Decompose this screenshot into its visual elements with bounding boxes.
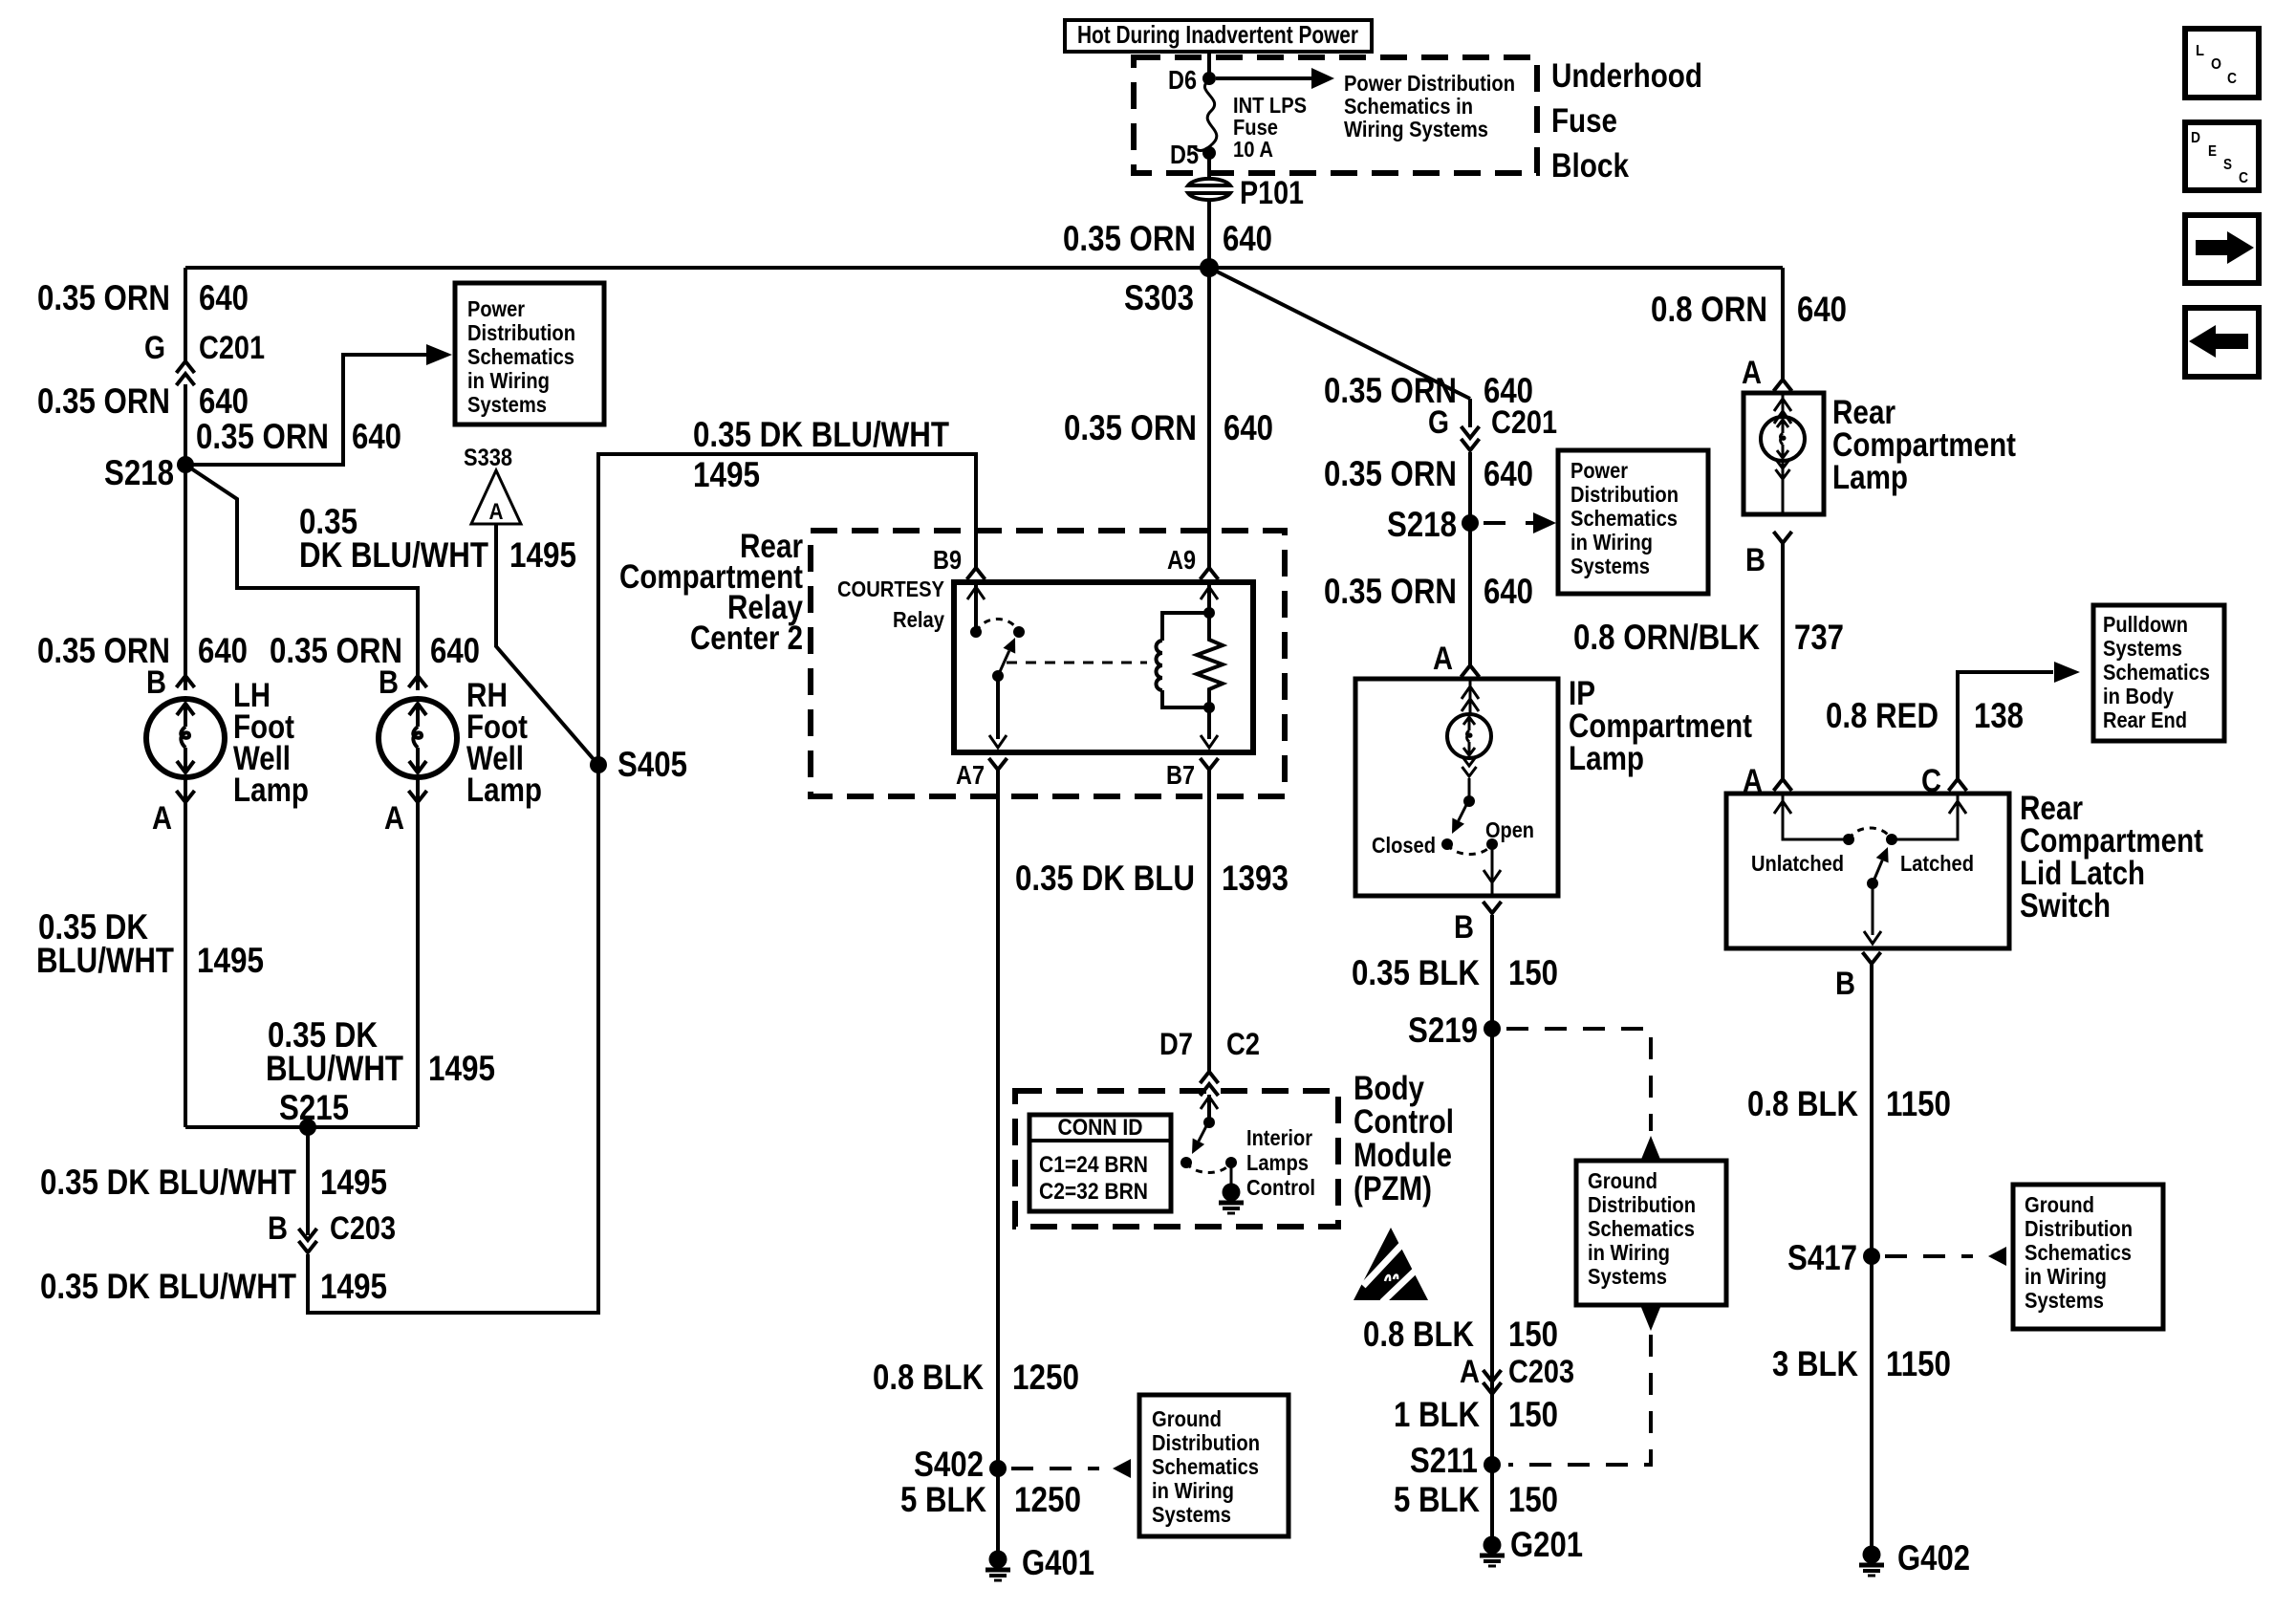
svg-text:Pulldown: Pulldown bbox=[2103, 612, 2188, 637]
svg-text:Unlatched: Unlatched bbox=[1751, 851, 1844, 876]
svg-text:Schematics: Schematics bbox=[2103, 660, 2210, 685]
svg-text:1495: 1495 bbox=[509, 535, 576, 575]
label box Hot During Inadvertent Power bbox=[1065, 20, 1372, 52]
connector C201 pin G bbox=[177, 361, 195, 373]
wire IP lamp B to G201 bbox=[1490, 915, 1494, 1536]
svg-text:S219: S219 bbox=[1408, 1011, 1478, 1050]
rear compartment relay center 2 dashed box bbox=[811, 531, 1285, 796]
svg-text:Distribution: Distribution bbox=[2025, 1216, 2133, 1241]
IP lamp internal wire bbox=[1469, 679, 1472, 714]
svg-text:138: 138 bbox=[1974, 696, 2024, 735]
svg-text:A7: A7 bbox=[956, 760, 985, 790]
svg-text:5 BLK: 5 BLK bbox=[900, 1480, 986, 1519]
connector C203 pin A (right) bbox=[1484, 1382, 1502, 1394]
splice S303 bbox=[1200, 258, 1219, 277]
svg-text:G: G bbox=[1428, 404, 1449, 441]
ground G402 bbox=[1863, 1546, 1881, 1564]
relay switch arm bbox=[998, 651, 1009, 676]
svg-text:C201: C201 bbox=[1491, 404, 1557, 441]
pin B RH foot well lamp bbox=[409, 676, 427, 687]
svg-text:0.35 ORN: 0.35 ORN bbox=[37, 381, 170, 421]
svg-text:C: C bbox=[2227, 71, 2237, 87]
svg-text:Center 2: Center 2 bbox=[690, 620, 803, 657]
svg-text:G402: G402 bbox=[1897, 1538, 1970, 1577]
relay internal wire A9 to coil junction bbox=[1207, 582, 1211, 613]
wire C201 to S218 right bbox=[1468, 452, 1472, 523]
wire loop bottom joining lamps bbox=[185, 1125, 418, 1129]
wire C203 around to relay B9 bbox=[308, 454, 976, 1313]
svg-text:640: 640 bbox=[1223, 219, 1272, 258]
wire hot feed into fuse block bbox=[1207, 52, 1211, 78]
svg-text:640: 640 bbox=[352, 417, 401, 456]
svg-text:D: D bbox=[2191, 130, 2200, 146]
svg-text:A: A bbox=[384, 800, 404, 837]
svg-text:1495: 1495 bbox=[197, 941, 264, 980]
svg-text:0.35 ORN: 0.35 ORN bbox=[1324, 572, 1457, 611]
svg-text:Switch: Switch bbox=[2020, 887, 2111, 925]
relay coil bbox=[1162, 613, 1209, 641]
svg-text:0.35 DK BLU/WHT: 0.35 DK BLU/WHT bbox=[40, 1163, 296, 1202]
rear compartment lamp bulb bbox=[1761, 417, 1805, 461]
svg-text:Fuse: Fuse bbox=[1551, 102, 1617, 140]
svg-text:in Wiring: in Wiring bbox=[1152, 1478, 1234, 1503]
nav box DESC bbox=[2185, 122, 2259, 190]
svg-text:S402: S402 bbox=[914, 1445, 984, 1484]
svg-text:A9: A9 bbox=[1167, 545, 1196, 575]
svg-text:CONN ID: CONN ID bbox=[1058, 1115, 1143, 1141]
relay internal wire B9 to fixed contact bbox=[974, 582, 978, 632]
wire rear lamp B to latch switch A bbox=[1781, 542, 1785, 779]
BCM switch linkage arc bbox=[1186, 1163, 1231, 1173]
svg-text:150: 150 bbox=[1508, 953, 1558, 992]
relay resistor bbox=[1197, 613, 1223, 707]
svg-text:1393: 1393 bbox=[1222, 859, 1289, 898]
svg-text:Schematics: Schematics bbox=[1570, 506, 1678, 531]
IP switch contact Open bbox=[1486, 838, 1498, 850]
svg-text:S417: S417 bbox=[1787, 1238, 1857, 1277]
svg-text:150: 150 bbox=[1508, 1395, 1558, 1434]
svg-text:1150: 1150 bbox=[1886, 1344, 1951, 1383]
svg-text:0.35 ORN: 0.35 ORN bbox=[196, 417, 329, 456]
dashed reference S218 to power distribution box bbox=[1484, 521, 1522, 525]
rear compartment lamp box bbox=[1744, 393, 1824, 514]
relay coil bottom junction bbox=[1203, 702, 1215, 713]
BCM interior lamps control switch arm bbox=[1199, 1124, 1207, 1142]
node D5 bbox=[1202, 146, 1216, 160]
wire C201 to S218 bbox=[184, 384, 187, 465]
svg-text:Interior: Interior bbox=[1246, 1125, 1312, 1150]
rear lamp internal connector bbox=[1776, 469, 1790, 479]
svg-text:C203: C203 bbox=[1508, 1354, 1574, 1390]
IP switch contact Closed bbox=[1441, 838, 1453, 850]
pin A RH foot well lamp bbox=[409, 791, 427, 802]
svg-text:Closed: Closed bbox=[1372, 833, 1436, 858]
wire to connector C201 bbox=[1468, 399, 1472, 427]
svg-text:G401: G401 bbox=[1022, 1543, 1094, 1582]
wire S338 to S405 bbox=[496, 524, 598, 765]
svg-text:Wiring Systems: Wiring Systems bbox=[1344, 117, 1488, 141]
connector C2 pin D7 bbox=[1201, 1072, 1219, 1083]
svg-text:Lamp: Lamp bbox=[1832, 459, 1908, 496]
svg-text:Systems: Systems bbox=[1570, 554, 1650, 578]
BCM input arrow up bbox=[1201, 1097, 1218, 1109]
rear lamp internal wire top bbox=[1782, 393, 1785, 418]
svg-text:Lamp: Lamp bbox=[466, 772, 542, 809]
CONN ID table bbox=[1029, 1115, 1171, 1211]
svg-text:A: A bbox=[152, 800, 172, 837]
svg-text:0.35 DK BLU/WHT: 0.35 DK BLU/WHT bbox=[40, 1267, 296, 1306]
svg-text:E: E bbox=[2208, 143, 2217, 160]
svg-text:B: B bbox=[1454, 909, 1474, 946]
svg-text:in Wiring: in Wiring bbox=[2025, 1264, 2107, 1289]
ground G201 bbox=[1484, 1536, 1502, 1555]
ESD sensitive device symbol bbox=[1354, 1228, 1428, 1300]
svg-text:(PZM): (PZM) bbox=[1354, 1170, 1432, 1207]
svg-text:S338: S338 bbox=[464, 445, 512, 471]
svg-text:Systems: Systems bbox=[2025, 1288, 2104, 1313]
pin B7 chevron bbox=[1201, 758, 1219, 770]
dashed reference S402 to ground distribution box bbox=[1011, 1467, 1099, 1470]
pin B IP compartment lamp bbox=[1484, 902, 1502, 913]
wire S215 down to C203 bbox=[306, 1127, 310, 1235]
svg-text:in Wiring: in Wiring bbox=[1570, 530, 1653, 555]
svg-text:1495: 1495 bbox=[320, 1267, 387, 1306]
svg-text:737: 737 bbox=[1794, 618, 1844, 657]
svg-text:1 BLK: 1 BLK bbox=[1394, 1395, 1480, 1434]
IP lamp wire open contact down bbox=[1491, 844, 1494, 874]
pin A latch switch bbox=[1774, 779, 1792, 791]
diagonal wire S303 to C201 bbox=[1209, 268, 1470, 399]
svg-text:C201: C201 bbox=[199, 330, 265, 366]
svg-text:Ground: Ground bbox=[1588, 1168, 1657, 1193]
svg-text:5 BLK: 5 BLK bbox=[1394, 1480, 1480, 1519]
svg-text:S218: S218 bbox=[104, 453, 174, 492]
BCM contact left bbox=[1180, 1157, 1192, 1168]
svg-text:B: B bbox=[379, 664, 399, 701]
svg-text:640: 640 bbox=[1484, 572, 1533, 611]
svg-text:C1=24 BRN: C1=24 BRN bbox=[1039, 1152, 1148, 1178]
wire D5 to P101 bbox=[1207, 153, 1211, 178]
svg-text:A: A bbox=[1742, 355, 1762, 391]
svg-text:Underhood: Underhood bbox=[1551, 57, 1702, 95]
svg-text:3 BLK: 3 BLK bbox=[1772, 1344, 1858, 1383]
wire bus down to C201 G bbox=[184, 268, 187, 361]
latch switch arm bbox=[1873, 860, 1882, 883]
svg-text:Latched: Latched bbox=[1900, 851, 1974, 876]
reference box Ground Distribution Schematics (right) bbox=[2013, 1185, 2163, 1329]
rear lamp internal wire bottom bbox=[1782, 462, 1785, 514]
splice S218 left bbox=[177, 456, 194, 473]
splice S402 bbox=[989, 1460, 1007, 1477]
svg-text:B: B bbox=[146, 664, 166, 701]
wire S218 to LH foot well lamp bbox=[184, 465, 187, 690]
svg-text:C: C bbox=[2239, 170, 2248, 186]
relay moving contact bbox=[1013, 626, 1025, 638]
splice S219 bbox=[1484, 1020, 1501, 1037]
IP lamp internal connector bbox=[1462, 767, 1477, 776]
svg-text:P101: P101 bbox=[1240, 175, 1304, 211]
svg-text:Hot During Inadvertent Power: Hot During Inadvertent Power bbox=[1077, 20, 1358, 49]
ground G401 bbox=[989, 1551, 1007, 1569]
BCM switch node bbox=[1203, 1117, 1215, 1128]
svg-text:640: 640 bbox=[1484, 454, 1533, 493]
IP lamp switch pivot bbox=[1463, 795, 1475, 807]
svg-text:Control: Control bbox=[1354, 1103, 1454, 1141]
pin B LH foot well lamp bbox=[177, 676, 195, 687]
relay internal wire arm to A7 bbox=[996, 676, 1000, 739]
pin A9 chevron bbox=[1201, 568, 1219, 579]
reference box Pulldown Systems Schematics in Body Rear End bbox=[2093, 605, 2224, 741]
splice S218 right bbox=[1462, 514, 1479, 532]
svg-text:0.35 ORN: 0.35 ORN bbox=[1324, 454, 1457, 493]
svg-text:BLU/WHT: BLU/WHT bbox=[266, 1049, 403, 1088]
svg-text:0.8 BLK: 0.8 BLK bbox=[1363, 1315, 1474, 1354]
latch contact Unlatched bbox=[1843, 834, 1854, 845]
svg-text:640: 640 bbox=[1797, 290, 1847, 329]
svg-text:640: 640 bbox=[199, 278, 249, 317]
latch arm pivot bbox=[1867, 878, 1878, 889]
relay switch linkage arc bbox=[976, 620, 1019, 633]
svg-text:0.35 ORN: 0.35 ORN bbox=[1063, 219, 1196, 258]
svg-text:0.35 DK BLU/WHT: 0.35 DK BLU/WHT bbox=[693, 415, 949, 454]
svg-text:G: G bbox=[144, 330, 165, 366]
svg-text:Power Distribution: Power Distribution bbox=[1344, 71, 1515, 96]
svg-text:Ground: Ground bbox=[1152, 1406, 1222, 1431]
svg-text:O: O bbox=[2211, 56, 2221, 73]
splice S215 bbox=[299, 1119, 316, 1136]
splice S211 bbox=[1484, 1456, 1501, 1473]
svg-text:Distribution: Distribution bbox=[1588, 1192, 1696, 1217]
svg-text:Schematics: Schematics bbox=[2025, 1240, 2132, 1265]
rear compartment lid latch switch box bbox=[1726, 794, 2009, 948]
svg-text:Distribution: Distribution bbox=[467, 320, 575, 345]
RH foot well lamp bbox=[379, 699, 457, 777]
courtesy relay box bbox=[954, 582, 1253, 752]
relay linkage dashed line bbox=[1007, 662, 1147, 664]
svg-text:S215: S215 bbox=[279, 1088, 349, 1127]
reference box Power Distribution Schematics (middle) bbox=[1558, 450, 1708, 594]
svg-text:0.8 ORN/BLK: 0.8 ORN/BLK bbox=[1573, 618, 1760, 657]
svg-text:640: 640 bbox=[199, 381, 249, 421]
wire A7 to G401 bbox=[996, 768, 1000, 1551]
relay arm pivot bbox=[992, 670, 1004, 682]
svg-text:D5: D5 bbox=[1170, 140, 1199, 169]
connector S338 triangle bbox=[471, 470, 521, 524]
BCM wire to internal ground bbox=[1230, 1163, 1233, 1186]
IP compartment lamp box bbox=[1355, 679, 1558, 896]
reference box Power Distribution Schematics in Wiring Systems bbox=[455, 283, 604, 424]
svg-text:D6: D6 bbox=[1168, 65, 1197, 95]
wire B7 to BCM D7 bbox=[1207, 768, 1211, 1072]
relay fixed contact bbox=[970, 626, 982, 638]
svg-text:S218: S218 bbox=[1387, 505, 1457, 544]
svg-text:C203: C203 bbox=[330, 1210, 396, 1247]
svg-text:C: C bbox=[1921, 763, 1941, 799]
pin B latch switch bbox=[1863, 952, 1881, 964]
arrow to power distribution schematics bbox=[1216, 76, 1311, 80]
svg-text:in Wiring: in Wiring bbox=[467, 368, 550, 393]
svg-text:Body: Body bbox=[1354, 1070, 1424, 1107]
svg-text:Lamp: Lamp bbox=[1569, 740, 1644, 777]
svg-text:A: A bbox=[1433, 641, 1453, 677]
nav box next arrow bbox=[2185, 215, 2259, 283]
svg-text:DK BLU/WHT: DK BLU/WHT bbox=[299, 535, 488, 575]
BCM internal ground bbox=[1223, 1184, 1241, 1202]
svg-text:Relay: Relay bbox=[893, 607, 944, 632]
wire latch B to G402 bbox=[1870, 965, 1874, 1546]
wire P101 to S303 bbox=[1207, 200, 1211, 268]
latch switch linkage arc bbox=[1849, 828, 1892, 839]
svg-text:0.35 ORN: 0.35 ORN bbox=[1064, 408, 1197, 447]
wire bus to rear compartment lamp A bbox=[1781, 268, 1785, 380]
node D6 bbox=[1202, 72, 1216, 85]
pin B9 chevron bbox=[967, 568, 986, 579]
svg-text:Block: Block bbox=[1551, 147, 1629, 185]
svg-text:150: 150 bbox=[1508, 1480, 1558, 1519]
svg-text:10 A: 10 A bbox=[1233, 137, 1273, 162]
pin A IP compartment lamp bbox=[1462, 665, 1480, 677]
wire into BCM bbox=[1207, 1095, 1211, 1122]
svg-text:Systems: Systems bbox=[467, 392, 547, 417]
svg-text:Systems: Systems bbox=[1588, 1264, 1667, 1289]
svg-text:Distribution: Distribution bbox=[1570, 482, 1679, 507]
bus wire 640 ORN bbox=[185, 266, 1783, 270]
svg-text:150: 150 bbox=[1508, 1315, 1558, 1354]
svg-text:0.8 BLK: 0.8 BLK bbox=[1747, 1084, 1858, 1123]
svg-text:0.35 DK BLU: 0.35 DK BLU bbox=[1015, 859, 1195, 898]
svg-text:0.35 ORN: 0.35 ORN bbox=[37, 278, 170, 317]
BCM contact right bbox=[1225, 1157, 1237, 1168]
connector P101 bbox=[1188, 179, 1230, 185]
svg-text:640: 640 bbox=[1224, 408, 1273, 447]
svg-text:Control: Control bbox=[1246, 1175, 1315, 1200]
svg-text:Lamps: Lamps bbox=[1246, 1150, 1309, 1175]
svg-text:Systems: Systems bbox=[1152, 1502, 1231, 1527]
svg-text:in Wiring: in Wiring bbox=[1588, 1240, 1670, 1265]
wire LH lamp to S215 loop bbox=[184, 777, 187, 1127]
splice S417 bbox=[1863, 1248, 1880, 1265]
svg-text:Systems: Systems bbox=[2103, 636, 2182, 661]
svg-text:D7: D7 bbox=[1159, 1027, 1193, 1061]
svg-text:Distribution: Distribution bbox=[1152, 1430, 1260, 1455]
relay coil top junction bbox=[1203, 607, 1215, 619]
svg-text:B: B bbox=[1835, 966, 1855, 1002]
svg-text:S211: S211 bbox=[1410, 1441, 1478, 1480]
IP lamp bulb bbox=[1447, 714, 1491, 758]
svg-text:B7: B7 bbox=[1166, 760, 1195, 790]
svg-text:Module: Module bbox=[1354, 1137, 1452, 1174]
splice S405 bbox=[590, 756, 607, 773]
svg-text:1150: 1150 bbox=[1886, 1084, 1951, 1123]
svg-text:Power: Power bbox=[1570, 458, 1628, 483]
relay internal wire to B7 bbox=[1207, 707, 1211, 739]
svg-text:0.35 BLK: 0.35 BLK bbox=[1352, 953, 1480, 992]
svg-text:Rear End: Rear End bbox=[2103, 707, 2187, 732]
svg-text:640: 640 bbox=[198, 631, 248, 670]
wire S218 to IP lamp A bbox=[1468, 523, 1472, 665]
svg-text:L: L bbox=[2196, 43, 2204, 59]
pin C latch switch bbox=[1949, 779, 1967, 791]
svg-text:Schematics: Schematics bbox=[1152, 1454, 1259, 1479]
pin A LH foot well lamp bbox=[177, 791, 195, 802]
reference box Ground Distribution Schematics (middle right) bbox=[1576, 1161, 1726, 1305]
pin A rear compartment lamp bbox=[1774, 380, 1792, 391]
svg-text:G201: G201 bbox=[1510, 1525, 1583, 1564]
nav box LOC bbox=[2185, 29, 2259, 98]
svg-text:Schematics in: Schematics in bbox=[1344, 94, 1473, 119]
svg-text:Schematics: Schematics bbox=[1588, 1216, 1695, 1241]
nav box previous arrow bbox=[2185, 308, 2259, 377]
svg-text:1495: 1495 bbox=[320, 1163, 387, 1202]
svg-text:S405: S405 bbox=[617, 745, 687, 784]
svg-text:C2: C2 bbox=[1226, 1027, 1260, 1061]
wire S218 to power distribution reference bbox=[185, 355, 428, 465]
IP lamp switch arm bbox=[1459, 803, 1467, 821]
latch switch internal wires bbox=[1783, 794, 1849, 839]
svg-text:in Body: in Body bbox=[2103, 684, 2174, 708]
svg-text:B: B bbox=[1745, 542, 1765, 578]
dashed reference S417 to ground distribution box bbox=[1885, 1254, 1973, 1258]
svg-text:Lamp: Lamp bbox=[233, 772, 309, 809]
wire S218 to RH foot well lamp bbox=[185, 465, 418, 690]
LH foot well lamp bbox=[146, 699, 225, 777]
svg-text:B: B bbox=[268, 1210, 288, 1247]
wire S303 down to relay A9 bbox=[1207, 268, 1211, 568]
svg-text:B9: B9 bbox=[933, 545, 962, 575]
svg-text:C2=32 BRN: C2=32 BRN bbox=[1039, 1179, 1148, 1205]
dashed reference arrow below box bbox=[1640, 1305, 1661, 1331]
dashed reference S219 to ground distribution box bbox=[1506, 1029, 1651, 1131]
svg-text:640: 640 bbox=[430, 631, 480, 670]
connector C203 pin B bbox=[299, 1241, 317, 1252]
latch contact Latched bbox=[1886, 834, 1897, 845]
svg-text:Open: Open bbox=[1485, 817, 1534, 842]
reference box Ground Distribution Schematics (bottom middle) bbox=[1139, 1395, 1289, 1536]
svg-text:1495: 1495 bbox=[693, 455, 760, 494]
body control module dashed box bbox=[1015, 1091, 1338, 1227]
underhood fuse block dashed box bbox=[1134, 57, 1537, 173]
svg-text:1250: 1250 bbox=[1012, 1358, 1079, 1397]
svg-text:COURTESY: COURTESY bbox=[837, 577, 944, 601]
wire latch C to pulldown reference bbox=[1958, 672, 2053, 779]
svg-text:S303: S303 bbox=[1124, 278, 1194, 317]
connector C201 pin G (right) bbox=[1462, 439, 1480, 450]
svg-text:0.8 BLK: 0.8 BLK bbox=[873, 1358, 984, 1397]
svg-text:BLU/WHT: BLU/WHT bbox=[36, 941, 174, 980]
fuse INT LPS 10A bbox=[1194, 80, 1217, 150]
pin B rear compartment lamp bbox=[1774, 532, 1792, 543]
svg-text:0.8 ORN: 0.8 ORN bbox=[1651, 290, 1767, 329]
svg-text:Power: Power bbox=[467, 296, 525, 321]
svg-text:S: S bbox=[2223, 157, 2232, 173]
svg-text:Schematics: Schematics bbox=[467, 344, 574, 369]
svg-text:A: A bbox=[1460, 1354, 1480, 1390]
svg-text:0.8 RED: 0.8 RED bbox=[1826, 696, 1939, 735]
pin A7 chevron bbox=[989, 758, 1007, 770]
svg-text:A: A bbox=[489, 499, 504, 525]
svg-text:1250: 1250 bbox=[1014, 1480, 1081, 1519]
svg-text:Ground: Ground bbox=[2025, 1192, 2094, 1217]
svg-text:1495: 1495 bbox=[428, 1049, 495, 1088]
wire RH lamp down to loop bbox=[416, 777, 420, 1127]
IP switch linkage arc bbox=[1447, 844, 1492, 855]
